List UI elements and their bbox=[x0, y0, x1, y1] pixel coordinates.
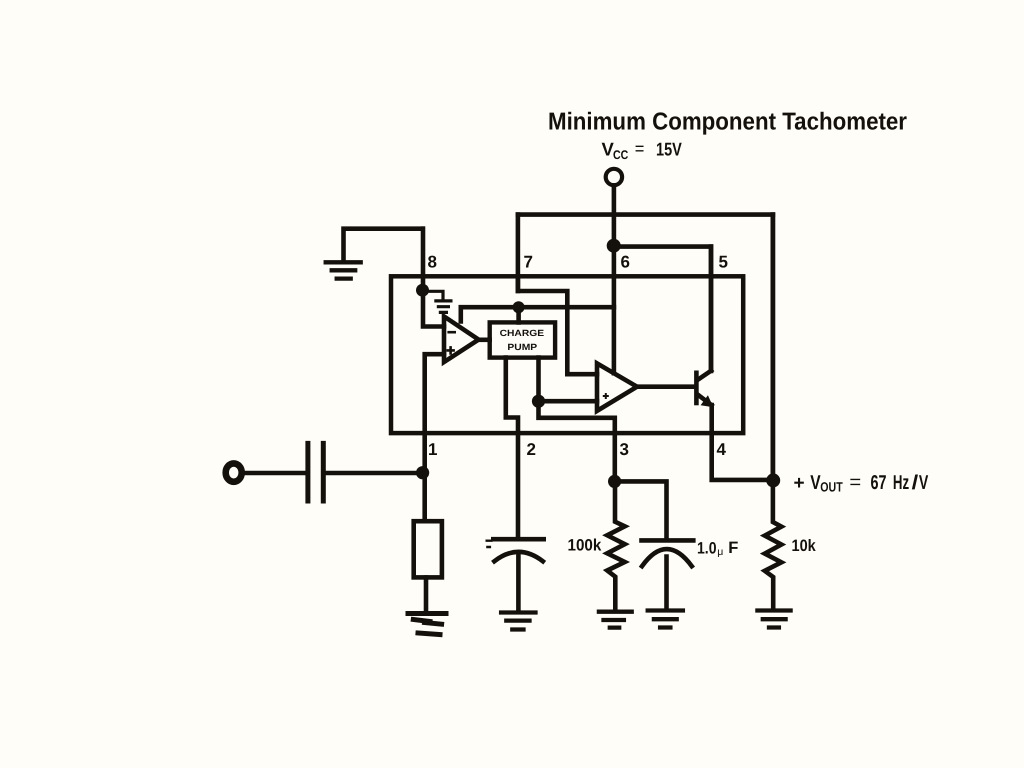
wire op-amp U1A output bbox=[479, 337, 490, 342]
svg-text:CHARGE: CHARGE bbox=[500, 328, 545, 338]
wire to op-amp U1B inverting input bbox=[539, 399, 598, 404]
node pin 8 bbox=[416, 284, 429, 297]
ground top-left bbox=[326, 229, 423, 279]
ground internal at pin 8 bbox=[427, 291, 451, 312]
svg-text:1: 1 bbox=[428, 440, 437, 459]
node charge pump output bbox=[532, 395, 545, 408]
ground below R1 bbox=[408, 614, 446, 635]
node charge pump top bbox=[513, 301, 525, 313]
label pin 8 bbox=[428, 253, 437, 272]
wire charge pump top rail bbox=[461, 307, 614, 322]
node pin 3 bbox=[608, 475, 621, 488]
capacitor C3 1.0uF bbox=[642, 540, 694, 608]
svg-text:/: / bbox=[912, 472, 919, 494]
wire node to pin 3 bbox=[539, 401, 615, 481]
svg-text:OUT: OUT bbox=[820, 479, 843, 494]
wire op-amp U1B output to Q1 base bbox=[637, 384, 694, 389]
op-amp U1B bbox=[597, 363, 637, 411]
node VOUT bbox=[766, 473, 780, 487]
capacitor C1 plates bbox=[308, 443, 323, 501]
wire VCC vertical (pin 6 column) bbox=[612, 185, 617, 373]
svg-text:67: 67 bbox=[871, 472, 887, 494]
resistor R3 10k bbox=[765, 481, 782, 610]
svg-text:=: = bbox=[635, 139, 645, 159]
polarity marks C2 bbox=[487, 541, 492, 547]
resistor R2 100k bbox=[607, 481, 625, 610]
wire R1 to ground bbox=[424, 578, 429, 612]
label pin 3 bbox=[620, 440, 629, 459]
svg-text:Minimum Component Tachometer: Minimum Component Tachometer bbox=[548, 109, 907, 136]
svg-text:Hz: Hz bbox=[893, 472, 909, 494]
label pin 6 bbox=[621, 253, 630, 272]
title bbox=[548, 109, 907, 136]
svg-text:8: 8 bbox=[428, 253, 437, 272]
svg-text:15V: 15V bbox=[656, 138, 682, 159]
wire op-amp U1A non-inverting input / pin 1 column bbox=[425, 354, 444, 519]
wire VCC to pin 5 bbox=[614, 247, 711, 371]
wire pin 8 drop bbox=[421, 229, 426, 291]
wire top rail bbox=[518, 212, 773, 217]
wire C1 to pin 1 bbox=[326, 471, 420, 475]
label +VOUT = 67 Hz/V bbox=[794, 472, 929, 495]
svg-text:100k: 100k bbox=[568, 536, 603, 554]
ground below C2 bbox=[501, 613, 535, 630]
node pin 1 bbox=[416, 466, 429, 479]
wire pin 7 internal elbow bbox=[518, 276, 597, 374]
svg-text:3: 3 bbox=[620, 440, 629, 459]
capacitor C2 at pin 2 bbox=[493, 539, 543, 611]
svg-text:V: V bbox=[919, 472, 929, 494]
IC U1 outline bbox=[391, 276, 743, 433]
label 100k bbox=[568, 536, 603, 554]
wire op-amp U1A inverting input bbox=[423, 294, 444, 327]
label plus U1A bbox=[448, 347, 454, 353]
svg-text:7: 7 bbox=[524, 253, 533, 272]
charge pump block bbox=[490, 322, 555, 357]
svg-text:6: 6 bbox=[621, 253, 630, 272]
label pin 5 bbox=[719, 253, 728, 272]
terminal VCC bbox=[606, 169, 622, 185]
wire input to C1 bbox=[243, 471, 306, 475]
label pin 2 bbox=[527, 440, 536, 459]
wire Q1 emitter to pin 4 and VOUT node bbox=[712, 405, 773, 480]
label pin 7 bbox=[524, 253, 533, 272]
label VCC = 15V bbox=[602, 138, 683, 162]
ground below R3 bbox=[757, 611, 790, 628]
svg-text:10k: 10k bbox=[792, 537, 817, 555]
svg-text:1.0: 1.0 bbox=[697, 540, 717, 558]
label plus U1B bbox=[604, 394, 608, 398]
svg-text:5: 5 bbox=[719, 253, 728, 272]
transistor Q1 bbox=[696, 247, 713, 408]
label pin 1 bbox=[428, 440, 437, 459]
label 10k bbox=[792, 537, 817, 555]
node VCC junction bbox=[607, 239, 621, 253]
op-amp U1A bbox=[444, 316, 479, 362]
svg-text:CC: CC bbox=[613, 148, 628, 162]
label 1.0uF bbox=[697, 539, 738, 558]
svg-text:=: = bbox=[849, 472, 861, 494]
wire rail left drop to pin 7 bbox=[516, 215, 521, 291]
wire rail right drop to VOUT node bbox=[771, 215, 776, 482]
wire pin 3 node to C3 bbox=[615, 481, 667, 538]
label pin 4 bbox=[717, 440, 727, 459]
svg-text:4: 4 bbox=[717, 440, 727, 459]
resistor R1 body bbox=[414, 521, 442, 577]
svg-text:PUMP: PUMP bbox=[507, 342, 537, 352]
svg-text:μ: μ bbox=[717, 546, 723, 558]
svg-text:F: F bbox=[728, 539, 738, 557]
terminal input bbox=[226, 463, 242, 481]
wire charge pump bottom-left to pin 2 bbox=[506, 358, 518, 538]
svg-text:2: 2 bbox=[527, 440, 536, 459]
ground below R2 bbox=[599, 612, 632, 628]
ground below C3 bbox=[648, 611, 683, 628]
label minus U1A bbox=[449, 331, 455, 334]
svg-text:+: + bbox=[794, 473, 805, 494]
wire charge pump bottom-right bbox=[536, 358, 541, 402]
